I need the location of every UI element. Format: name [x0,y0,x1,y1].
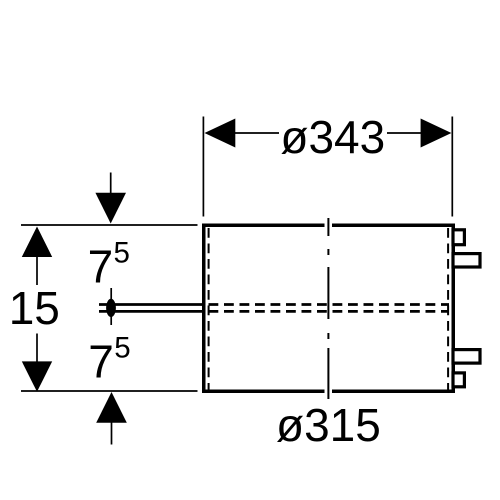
svg-text:ø315: ø315 [276,399,381,451]
hidden double line lower (dashed, inside body) [206,310,449,313]
extension line left for dimension ø343 [202,117,204,217]
tab bottom large [453,350,480,364]
hidden double line upper (dashed, inside body) [206,303,449,306]
arrow pointing down at top line [95,193,126,224]
leader line bottom arrow [111,423,113,445]
svg-text:5: 5 [114,237,130,270]
arrow up of dimension 15 [22,227,52,258]
svg-text:7: 7 [88,241,114,293]
tab top large [453,254,480,267]
dimension line 15 lower segment [36,334,38,363]
extension line top for dimension 15 [21,224,198,226]
thin vertical line through dot [110,288,112,325]
dimension line 15 upper segment [36,256,38,285]
arrow pointing up at bottom line [96,392,127,423]
arrow right of ø343 [421,119,452,148]
leader line top arrow [110,173,112,195]
tab bottom small [453,373,464,387]
gap in top edge at centerline [325,223,333,230]
hidden inner edge right (dashed) [447,228,449,390]
svg-text:ø343: ø343 [280,111,385,163]
supply double line lower (solid, outside body) [99,310,206,313]
extension line right for dimension ø343 [451,117,453,217]
hidden inner edge left (dashed) [208,228,210,390]
svg-text:15: 15 [9,282,60,334]
arrow left of ø343 [205,119,236,148]
svg-text:5: 5 [114,332,130,365]
body outline (tank side view) [204,225,454,391]
anchor dot on supply line [106,299,116,317]
arrow down of dimension 15 [22,361,52,391]
extension line bottom for dimension 15 [21,390,198,392]
tab top small [453,230,464,245]
dimension line ø343 left segment [232,132,279,134]
centerline (vertical dash-dot) [327,218,329,399]
gap in bottom edge at centerline [325,388,333,395]
supply double line upper (solid, outside body) [99,303,206,306]
dimension line ø343 right segment [387,132,424,134]
svg-text:7: 7 [88,336,114,388]
